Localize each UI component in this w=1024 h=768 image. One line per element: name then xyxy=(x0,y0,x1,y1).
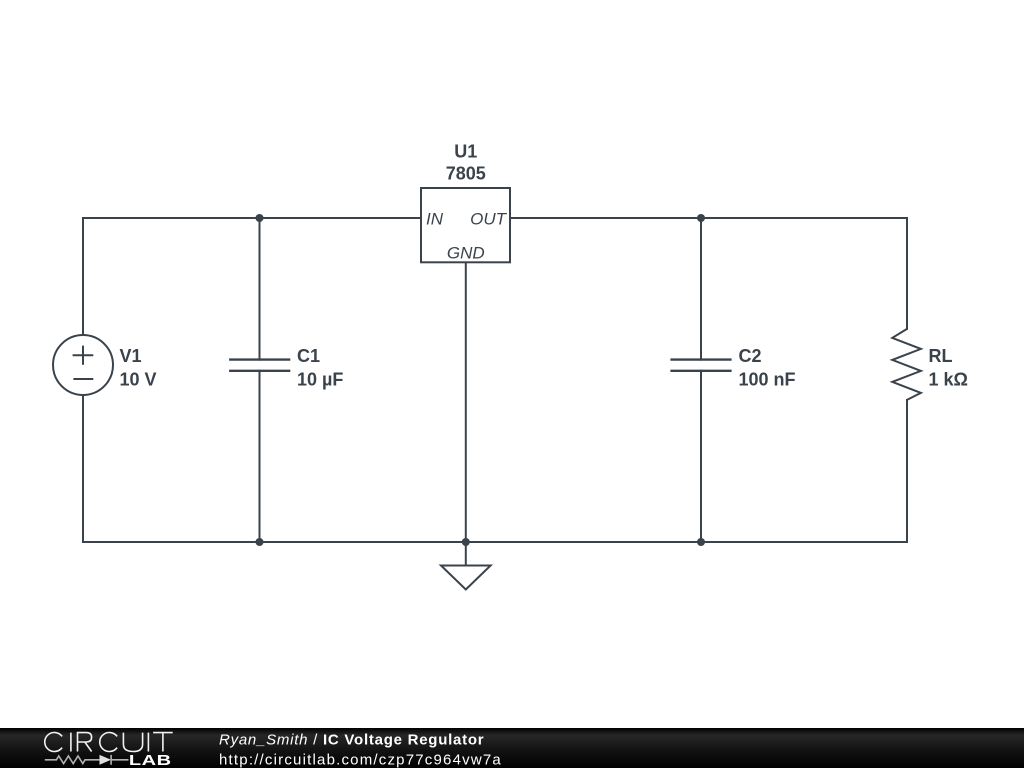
wire left vertical below V1 xyxy=(82,395,84,542)
voltage source V1 xyxy=(53,335,113,395)
svg-text:LAB: LAB xyxy=(129,752,172,768)
node: GND junction xyxy=(462,538,470,546)
wire RL top lead xyxy=(906,218,908,329)
svg-text:U1: U1 xyxy=(454,142,477,162)
svg-text:100 nF: 100 nF xyxy=(739,369,796,389)
wire C1 bottom lead xyxy=(259,371,261,542)
wire left vertical above V1 xyxy=(82,218,84,335)
svg-text:V1: V1 xyxy=(120,346,142,366)
logo CIRCUIT (drawn letters) xyxy=(45,732,173,751)
svg-text:GND: GND xyxy=(447,243,485,262)
wire RL bottom lead xyxy=(906,400,908,542)
node: C2/OUT top junction xyxy=(697,214,705,222)
svg-text:7805: 7805 xyxy=(446,164,486,184)
wire U1 GND lead xyxy=(465,262,467,565)
svg-text:Ryan_Smith / IC Voltage Regula: Ryan_Smith / IC Voltage Regulator xyxy=(219,731,484,748)
logo squiggle: resistor xyxy=(45,756,100,764)
capacitor C2 xyxy=(670,360,731,371)
node: C1 bottom junction xyxy=(256,538,264,546)
node: C2 bottom junction xyxy=(697,538,705,546)
node: C1/V1 top junction xyxy=(256,214,264,222)
wire top-left: V1 to U1.IN with C1 tap xyxy=(83,217,421,219)
wire C2 top lead xyxy=(700,218,702,360)
svg-text:IN: IN xyxy=(426,209,444,228)
capacitor C1 xyxy=(229,360,290,371)
ground xyxy=(441,566,491,590)
svg-text:RL: RL xyxy=(929,346,953,366)
svg-text:OUT: OUT xyxy=(470,209,508,228)
svg-text:C1: C1 xyxy=(297,346,320,366)
wire bottom rail xyxy=(83,541,907,543)
svg-text:http://circuitlab.com/czp77c96: http://circuitlab.com/czp77c964vw7a xyxy=(219,751,502,768)
wire C1 top lead xyxy=(259,218,261,360)
wire top-right: U1.OUT to RL with C2 tap xyxy=(510,217,907,219)
op-amp U1 (7805 regulator box) xyxy=(421,142,510,263)
svg-text:C2: C2 xyxy=(739,346,762,366)
svg-text:10 µF: 10 µF xyxy=(297,369,343,389)
logo squiggle: diode xyxy=(100,755,112,765)
svg-text:1 kΩ: 1 kΩ xyxy=(929,369,968,389)
svg-text:10 V: 10 V xyxy=(120,369,157,389)
resistor RL xyxy=(892,329,921,400)
wire C2 bottom lead xyxy=(700,371,702,542)
